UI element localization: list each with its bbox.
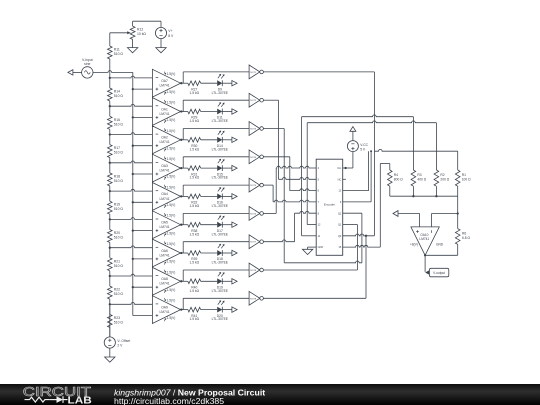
ground right of D15 [232,165,237,170]
svg-text:1.5(V): 1.5(V) [167,185,176,189]
wire OA2 output to R30 [181,139,188,141]
svg-text:GND: GND [436,243,444,247]
svg-text:LTL-307EE: LTL-307EE [212,261,229,265]
voltage source V-CC 5V [347,141,368,152]
wire ladder tap 2 to op-amp - input (hops bus) [110,104,153,106]
svg-text:NOT6: NOT6 [250,213,257,215]
resistor R22 [108,286,124,299]
wire bus stub to op-amp + input row 6 [133,230,153,232]
node OA8 output [180,280,182,282]
svg-text:OA10: OA10 [420,233,428,237]
wire rail C encoder pin 12 to R2 [307,121,436,225]
wire D11 to ground [222,111,232,113]
wire R4 bottom [389,186,391,196]
svg-text:R21: R21 [114,259,120,263]
svg-text:LTL-307EE: LTL-307EE [212,147,229,151]
svg-text:OA4: OA4 [161,192,168,196]
op-amp OA8 [152,267,180,295]
resistor R6 [455,229,470,245]
svg-text:-1.5(V): -1.5(V) [166,146,176,150]
node ladder tap 5 [109,190,111,192]
wire OA1 output to R29 [181,111,188,113]
wire encoder pin 9 riser [343,151,371,202]
svg-text:LTL-307EE: LTL-307EE [212,176,229,180]
ground right of D18 [232,250,237,255]
svg-text:1.5(V): 1.5(V) [167,101,176,105]
NOT gate NOT2 [249,93,263,107]
wire NOT8 output wrap to encoder pin Q1 [263,225,357,271]
svg-text:NC: NC [338,178,342,181]
svg-text:-1.5(V): -1.5(V) [166,175,176,179]
wire R30 to D14 [201,139,218,141]
resistor R38 [188,222,201,236]
node bus tap row 1 [132,88,134,90]
wire ladder tap 8 to op-amp - input (hops bus) [110,274,153,276]
wire ladder segment below R20 [109,219,111,247]
svg-text:510 Ω: 510 Ω [114,292,124,296]
wire D16 to ground [222,195,232,197]
wire OA8 output up to NOT gate 8 [183,270,249,281]
resistor R32 [188,194,201,208]
op-amp OA2 [152,126,180,154]
op-amp OA6 [152,239,180,267]
ground right of D19 [232,279,237,284]
svg-text:R23: R23 [114,316,120,320]
resistor R23 [108,314,124,327]
resistor R29 [188,109,201,123]
resistor R17 [108,145,124,158]
wire R12 top to V+ top [133,21,161,27]
resistor R20 [108,230,124,243]
svg-text:800 Ω: 800 Ω [394,178,403,182]
svg-text:NOT3: NOT3 [250,129,257,131]
wire encoder pin Q1 riser [373,151,375,236]
wire OA4 output up to NOT gate 5 [183,185,249,196]
svg-text:1.5(V): 1.5(V) [167,129,176,133]
svg-text:NOT7: NOT7 [250,242,257,244]
ground right of D16 [232,194,237,199]
NOT gate NOT9 [249,291,263,305]
pin stub NC [343,178,346,180]
ground right of D9 [232,81,237,86]
svg-text:OA5: OA5 [161,221,168,225]
LED D19 [212,272,229,293]
wire NOT5 output to encoder pin 7 [263,185,316,202]
svg-text:R2: R2 [440,173,444,177]
svg-text:OA7: OA7 [161,79,168,83]
svg-text:LM741: LM741 [159,84,169,88]
node OA4 output [180,195,182,197]
resistor R14 [108,88,124,101]
wire ladder segment below R16 [109,106,111,134]
wire ladder segment below R23 [109,304,111,337]
svg-text:1.5 kΩ: 1.5 kΩ [189,147,199,151]
svg-text:LTL-307EE: LTL-307EE [212,289,229,293]
svg-text:510 Ω: 510 Ω [114,264,124,268]
LED D17 [212,215,229,236]
wire R29 to D11 [201,111,218,113]
svg-text:OA9: OA9 [161,305,168,309]
wire D15 to ground [222,167,232,169]
svg-text:LTL-307EE: LTL-307EE [212,232,229,236]
svg-text:LM741: LM741 [159,253,169,257]
op-amp OA3 [152,154,180,182]
svg-text:-1.5(V): -1.5(V) [166,203,176,207]
svg-text:LM741: LM741 [159,140,169,144]
wire R12 bottom to ground [132,39,134,47]
footer title text [114,388,265,405]
wire NOT4 output to encoder pin 6 [263,157,316,191]
node bus tap row 3 [132,145,134,147]
wire D9 to ground [222,82,232,84]
wire ladder tap 1 to op-amp - input (hops bus) [110,76,153,78]
svg-text:510 Ω: 510 Ω [114,94,124,98]
resistor R27 [188,81,201,95]
svg-text:1.5 kΩ: 1.5 kΩ [189,317,199,321]
resistor R21 [108,258,124,271]
node OA1 output [180,110,182,112]
wire V-CC to encoder Vcc pin [343,152,353,168]
wire ladder segment below R22 [109,276,111,304]
svg-text:510 Ω: 510 Ω [114,52,124,56]
wire ladder segment below R14 [109,78,111,106]
wire bus stub to op-amp + input row 8 [133,286,153,288]
svg-text:NOT4: NOT4 [250,157,257,159]
ground right of D17 [232,222,237,227]
svg-text:10 kΩ: 10 kΩ [137,32,146,36]
svg-text:Vcc: Vcc [337,167,342,170]
ground right of D11 [232,109,237,114]
svg-text:200 Ω: 200 Ω [440,178,449,182]
node ladder tap 9 [109,303,111,305]
svg-text:R1: R1 [462,173,466,177]
resistor R4 [388,170,404,186]
node bus tap row 6 [132,229,134,231]
svg-text:NOT8: NOT8 [250,270,257,272]
wire R38 to D17 [201,224,218,226]
resistor R31 [188,166,201,180]
wire OA6 output up to NOT gate 7 [183,242,249,253]
wire NOT6 output to encoder pin 4 [263,166,316,213]
LED D16 [212,187,229,208]
wire R41 to D20 [201,309,218,311]
svg-text:510 Ω: 510 Ω [114,207,124,211]
wire R6 to OA10 output [425,244,458,255]
svg-text:1.5(V): 1.5(V) [167,270,176,274]
svg-text:1.5 kΩ: 1.5 kΩ [189,261,199,265]
NOT gate NOT3 [249,122,263,136]
wire bus stub to op-amp + input row 5 [133,201,153,203]
op-amp OA9 [152,296,180,324]
footer bar [0,384,540,405]
NOT gate NOT6 [249,207,263,221]
svg-text:R19: R19 [114,203,120,207]
op-amp OA4 [152,183,180,211]
node bus tap row 2 [132,116,134,118]
wire NOT7 output to encoder pin 8 [263,211,316,241]
svg-text:1.5 kΩ: 1.5 kΩ [189,232,199,236]
wire encoder GND pin to ground [308,247,317,249]
svg-text:R18: R18 [114,174,120,178]
wire rail B encoder pin 11 to R3 [302,115,414,236]
wire D20 to ground [222,309,232,311]
wire R2 bottom [435,186,437,196]
ground right of D20 [232,307,237,312]
potentiometer R12 [130,26,146,39]
svg-text:1.5(V): 1.5(V) [167,242,176,246]
NOT gate NOT5 [249,178,263,192]
svg-text:R16: R16 [114,118,120,122]
svg-text:1.5 kΩ: 1.5 kΩ [189,289,199,293]
resistor R18 [108,173,124,186]
wire ladder tap 6 to op-amp - input (hops bus) [110,218,153,220]
encoder U1 [316,159,343,255]
bus wire V-input to op-amp + inputs [132,72,134,315]
svg-text:2 V: 2 V [117,344,123,348]
power flag V-CC [350,127,356,141]
node OA5 output [180,224,182,226]
wire R39 to D18 [201,252,218,254]
svg-text:Encoder: Encoder [324,203,335,207]
svg-text:R12: R12 [137,27,143,31]
resistor R11 [108,46,124,59]
svg-text:NOT5: NOT5 [250,185,257,187]
svg-text:-1.5(V): -1.5(V) [166,260,176,264]
wire NOT2 output to encoder pin 5 [263,100,316,179]
svg-text:1.5(V): 1.5(V) [167,72,176,76]
svg-text:510 Ω: 510 Ω [114,151,124,155]
node ladder tap 7 [109,247,111,249]
svg-text:OA2: OA2 [161,136,168,140]
wire R32 to D16 [201,195,218,197]
wire encoder pin 15 to R4 [343,164,390,248]
svg-text:R20: R20 [114,231,120,235]
node R2 bottom [435,195,437,197]
resistor R41 [188,307,201,321]
node ladder tap 2 [109,105,111,107]
svg-text:1.5 kΩ: 1.5 kΩ [189,91,199,95]
wire NOT1 output to rail A [263,72,374,151]
voltage source V-input sine [82,58,93,78]
wire R11 to first tap [109,59,111,78]
wire summing node to OA10 - input [432,214,458,227]
resistor R3 [411,170,427,186]
node ladder tap 3 [109,133,111,135]
node OA2 output [180,139,182,141]
svg-text:LTL-307EE: LTL-307EE [212,317,229,321]
ground left of OA10 + input [393,211,398,217]
wire bus stub to op-amp + input row 7 [133,258,153,260]
svg-text:OA1: OA1 [161,107,168,111]
svg-text:5 V: 5 V [360,148,366,152]
svg-text:400 Ω: 400 Ω [417,178,426,182]
node OA3 output [180,167,182,169]
svg-text:LAB: LAB [68,395,92,405]
svg-text:V-CC: V-CC [360,143,368,147]
node ladder tap 4 [109,162,111,164]
svg-text:510 Ω: 510 Ω [114,236,124,240]
wire R40 to D19 [201,280,218,282]
svg-text:LTL-307EE: LTL-307EE [212,91,229,95]
wire OA7 output up to NOT gate 1 [183,72,249,83]
voltage source V- Offset 2V [104,337,130,348]
wire OA10 output down [424,255,426,272]
svg-text:1.5 kΩ: 1.5 kΩ [189,204,199,208]
node OA7 output [180,82,182,84]
wire OA3 output to R31 [181,167,188,169]
resistor R16 [108,116,124,129]
NOT gate NOT7 [249,235,263,249]
wire ground to OA10 + input [398,214,420,227]
flag V-output [425,268,449,277]
node R3 bottom [412,195,414,197]
svg-text:Q0: Q0 [338,235,342,238]
CircuitLab logo [23,384,92,405]
svg-text:-1.5(V): -1.5(V) [166,231,176,235]
svg-text:1.5(V): 1.5(V) [167,214,176,218]
ground left of V-input source [68,70,73,75]
wire V-offset to ground [109,348,111,357]
node ladder tap 8 [109,275,111,277]
wire ladder bottom to V-offset [109,304,111,337]
wire OA3 output up to NOT gate 4 [183,157,249,168]
svg-text:-1.5(V): -1.5(V) [166,288,176,292]
wire OA9 output up to NOT gate 9 [183,298,249,309]
NOT gate NOT4 [249,150,263,164]
svg-text:1.5 kΩ: 1.5 kΩ [189,176,199,180]
svg-text:R6: R6 [462,231,466,235]
wire V-input to bus (hops ladder) [93,71,133,73]
wire ladder tap 9 to op-amp - input (hops bus) [110,302,153,304]
wire V+ bottom to ground [160,39,162,48]
resistor R30 [188,138,201,152]
svg-text:NOT1: NOT1 [250,72,257,74]
svg-text:V- Offset: V- Offset [117,339,130,343]
wire bus stub to op-amp + input row 2 [133,116,153,118]
wire DAC summing rail [390,196,458,228]
op-amp OA1 [152,98,180,126]
svg-text:Q1: Q1 [338,224,342,227]
svg-text:V-output: V-output [433,271,445,275]
svg-text:+8(V): +8(V) [410,243,418,247]
node rail A joins [370,150,372,152]
svg-text:OA6: OA6 [161,249,168,253]
wire NOT9 output wrap to encoder pin Q0 [263,236,366,298]
wire OA5 output up to NOT gate 6 [183,213,249,224]
resistor R40 [188,279,201,293]
node bus tap row 8 [132,286,134,288]
wire OA6 output to R39 [181,252,188,254]
voltage source V+ 8V [155,27,174,38]
svg-text:R14: R14 [114,90,120,94]
wire OA9 output to R41 [181,309,188,311]
svg-text:-1.5(V): -1.5(V) [166,118,176,122]
svg-text:V+: V+ [168,29,172,33]
svg-text:http://circuitlab.com/c2dk385: http://circuitlab.com/c2dk385 [114,396,224,405]
node bus tap row 4 [132,173,134,175]
svg-text:sine: sine [84,62,90,66]
op-amp OA7 [152,69,180,97]
wire ladder tap 4 to op-amp - input (hops bus) [110,161,153,163]
wire ladder tap 7 to op-amp - input (hops bus) [110,246,153,248]
LED D14 [212,131,229,152]
wire ladder segment below R19 [109,191,111,219]
svg-text:1.5 kΩ: 1.5 kΩ [189,119,199,123]
resistor R19 [108,201,124,214]
svg-text:100 Ω: 100 Ω [462,178,471,182]
wire riser to encoder pin Q2 [343,213,362,263]
wire ladder tap 3 to op-amp - input (hops bus) [110,133,153,135]
node OA6 output [180,252,182,254]
svg-text:R11: R11 [114,48,120,52]
wire bus stub to op-amp + input row 1 [133,88,153,90]
svg-text:LM741: LM741 [159,282,169,286]
node summing junction [457,212,459,214]
svg-text:OA8: OA8 [161,277,168,281]
wire ladder segment below R17 [109,135,111,163]
ground under V-offset [105,357,115,362]
wire encoder pin 13 riser [343,151,369,190]
wire bus stub to op-amp + input row 3 [133,145,153,147]
ground under R12 [127,48,137,53]
wire NOT3 output wrap under encoder [263,129,362,263]
node OA10 output [424,254,426,256]
svg-text:R3: R3 [417,173,421,177]
node pin Q1 join [365,235,367,237]
svg-text:LTL-307EE: LTL-307EE [212,119,229,123]
wire ladder segment below R21 [109,248,111,276]
svg-text:6.8 Ω: 6.8 Ω [462,236,470,240]
node Vcc pin [344,167,346,169]
svg-text:-1.5(V): -1.5(V) [166,90,176,94]
resistor R1 [455,170,471,186]
LED D20 [212,300,229,321]
node bus tap row 7 [132,258,134,260]
svg-text:LM741: LM741 [159,225,169,229]
svg-text:R17: R17 [114,146,120,150]
wire ladder tap 5 to op-amp - input (hops bus) [110,189,153,191]
svg-text:LM741: LM741 [159,310,169,314]
wire R3 bottom [412,186,414,196]
svg-text:8 V: 8 V [168,34,174,38]
wire D14 to ground [222,139,232,141]
op-amp OA5 [152,211,180,239]
svg-text:LM741: LM741 [159,169,169,173]
svg-text:510 Ω: 510 Ω [114,179,124,183]
svg-text:LM741: LM741 [419,237,429,241]
ground right of D14 [232,137,237,142]
wire rail A to R1 (hops R4 riser) [374,149,457,170]
svg-text:NOT9: NOT9 [250,298,257,300]
resistor R2 [434,170,450,186]
NOT gate NOT1 [249,65,263,79]
svg-text:-1.5(V): -1.5(V) [166,316,176,320]
wire R31 to D15 [201,167,218,169]
node bus tap row 5 [132,201,134,203]
svg-text:R4: R4 [394,173,398,177]
wire bus stub to op-amp + input row 9 [133,315,153,317]
wire OA1 output up to NOT gate 2 [183,100,249,111]
svg-text:R22: R22 [114,288,120,292]
svg-text:LTL-307EE: LTL-307EE [212,204,229,208]
wire D17 to ground [222,224,232,226]
wire ladder segment below R18 [109,163,111,191]
wire R27 to D9 [201,82,218,84]
node OA9 output [180,308,182,310]
op-amp OA10 [410,227,444,255]
node ladder tap 6 [109,218,111,220]
wire D19 to ground [222,280,232,282]
